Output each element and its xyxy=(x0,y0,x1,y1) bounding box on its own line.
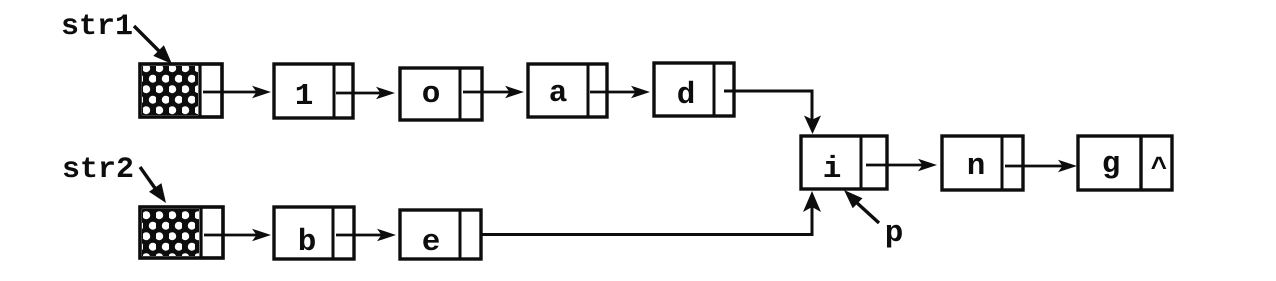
label str1 xyxy=(61,10,133,44)
node i xyxy=(801,136,887,189)
arrow from str1 label to head node xyxy=(134,26,172,64)
wire head1 to node l xyxy=(203,86,271,99)
svg-text:g: g xyxy=(1102,147,1121,182)
node str2 head (hatched) xyxy=(140,207,223,258)
wire n to g xyxy=(1005,160,1077,173)
wire d to node i (right then down) xyxy=(724,91,821,134)
svg-text:a: a xyxy=(549,76,568,111)
wire l to o xyxy=(336,87,395,100)
svg-text:1: 1 xyxy=(295,79,314,114)
node l xyxy=(274,64,353,118)
svg-text:p: p xyxy=(885,216,904,251)
node str1 head (hatched) xyxy=(140,64,222,117)
svg-text:o: o xyxy=(422,77,441,112)
node g (last node, ^ terminator) xyxy=(1078,136,1172,190)
node o xyxy=(400,68,482,120)
label str2 xyxy=(62,153,134,187)
wire head2 to node b xyxy=(204,229,271,242)
node n xyxy=(942,136,1023,190)
arrow from str2 label to head node xyxy=(140,167,166,203)
node e xyxy=(400,210,481,260)
svg-text:b: b xyxy=(298,225,317,260)
label p xyxy=(885,216,904,251)
wire i to n xyxy=(866,159,937,172)
svg-text:str2: str2 xyxy=(62,153,134,187)
node d xyxy=(654,63,734,116)
svg-text:d: d xyxy=(677,78,696,113)
wire a to d xyxy=(590,86,650,99)
wire b to e xyxy=(336,229,396,242)
svg-text:^: ^ xyxy=(1151,154,1168,185)
arrow from p label to node i xyxy=(844,190,879,223)
svg-text:i: i xyxy=(823,152,842,187)
wire e to node i (long right then up) xyxy=(480,191,821,235)
svg-text:n: n xyxy=(967,149,986,184)
svg-text:str1: str1 xyxy=(61,10,133,44)
wire o to a xyxy=(463,86,524,99)
node a xyxy=(528,64,607,117)
node b xyxy=(274,207,354,260)
svg-text:e: e xyxy=(422,225,441,260)
